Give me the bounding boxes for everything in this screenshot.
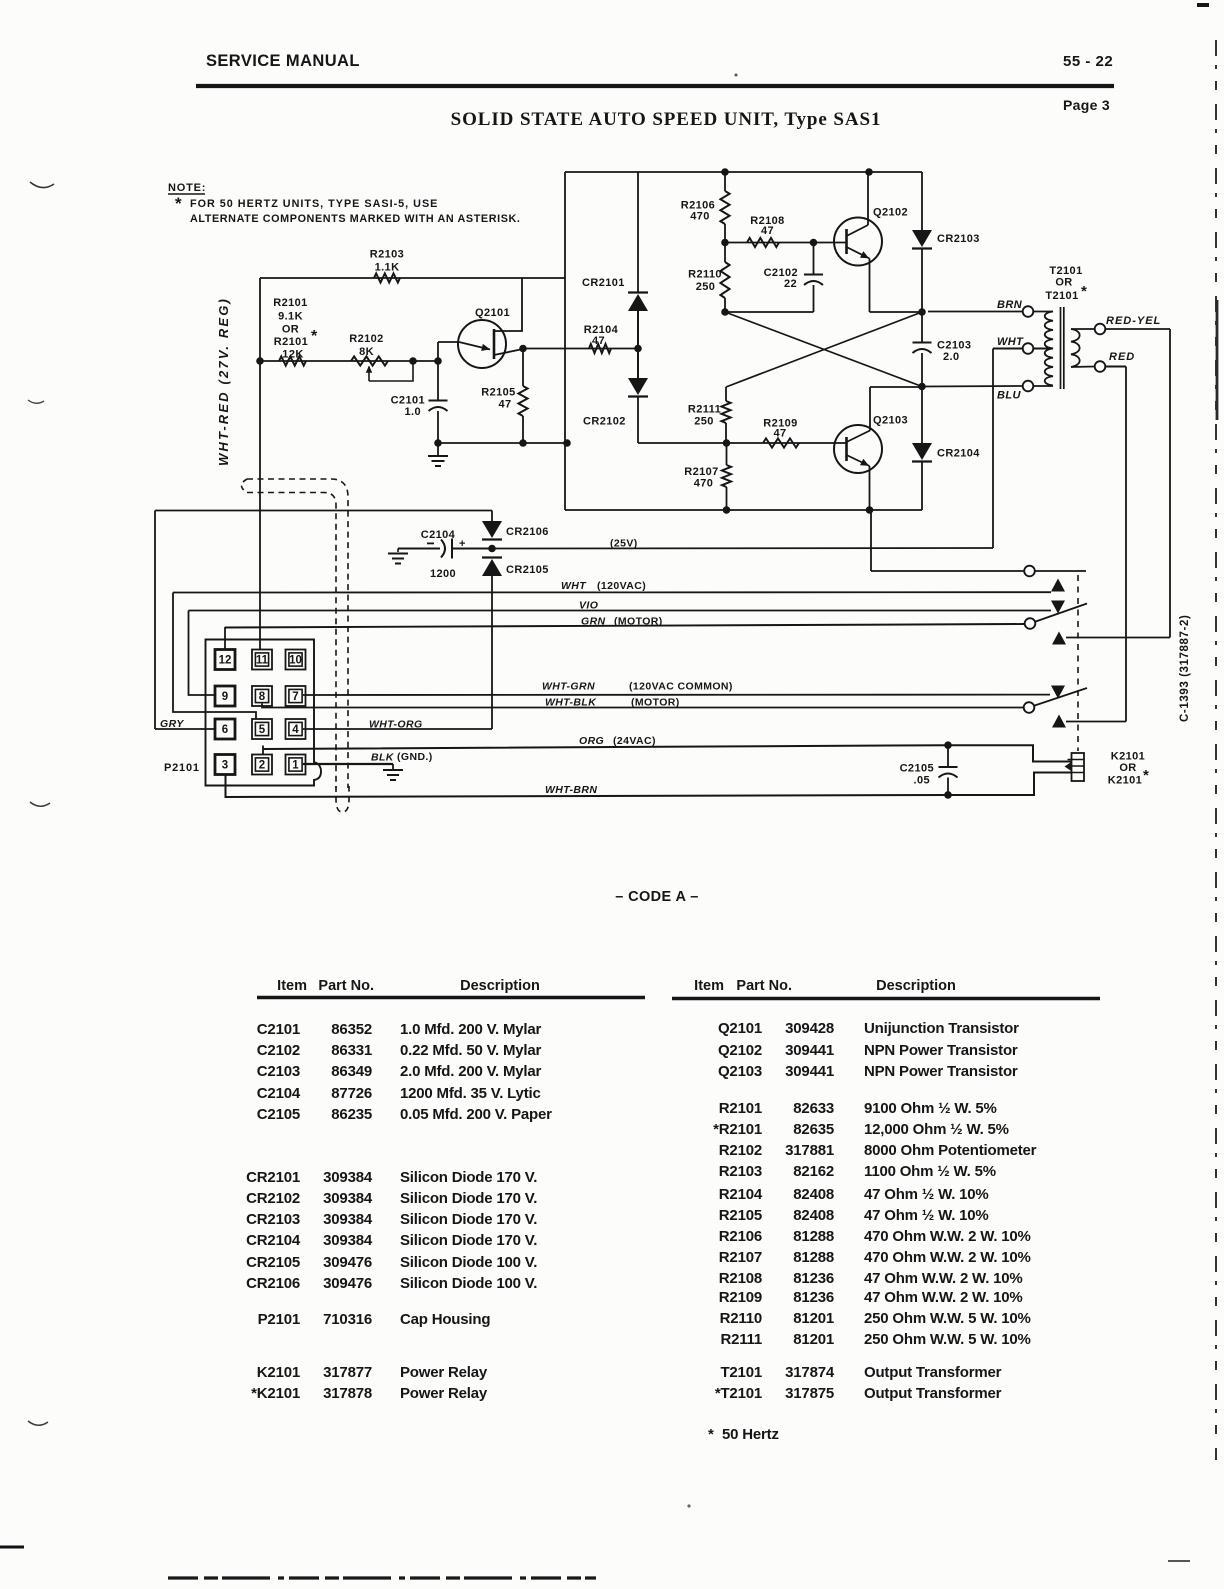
svg-text:(25V): (25V) (610, 538, 638, 550)
svg-text:317877: 317877 (323, 1364, 372, 1381)
svg-text:1.1K: 1.1K (375, 262, 400, 274)
svg-text:Q2101: Q2101 (475, 307, 510, 319)
svg-text:K2101: K2101 (1111, 751, 1145, 763)
svg-text:(120VAC COMMON): (120VAC COMMON) (629, 681, 733, 693)
svg-text:WHT-ORG: WHT-ORG (369, 719, 423, 731)
svg-text:Q2102: Q2102 (718, 1042, 762, 1059)
svg-text:9.1K: 9.1K (278, 311, 303, 323)
svg-text:Part No.: Part No. (318, 978, 374, 994)
svg-text:R2101: R2101 (719, 1100, 762, 1117)
svg-text:R2106: R2106 (719, 1228, 762, 1245)
svg-text:Q2103: Q2103 (718, 1063, 762, 1080)
svg-text:NOTE:: NOTE: (168, 182, 206, 194)
svg-text:12K: 12K (282, 349, 303, 361)
svg-text:R2111: R2111 (720, 1331, 762, 1348)
svg-text:47: 47 (761, 225, 774, 237)
svg-text:309384: 309384 (323, 1232, 373, 1249)
svg-text:470: 470 (694, 478, 714, 490)
svg-text:9100 Ohm ½ W. 5%: 9100 Ohm ½ W. 5% (864, 1100, 997, 1117)
svg-text:309384: 309384 (323, 1190, 373, 1207)
svg-text:82408: 82408 (793, 1207, 834, 1224)
svg-text:WHT-GRN: WHT-GRN (542, 681, 595, 693)
svg-text:R2103: R2103 (370, 249, 404, 261)
svg-text:82635: 82635 (793, 1121, 834, 1138)
svg-text:47: 47 (773, 428, 786, 440)
svg-text:Part No.: Part No. (736, 978, 792, 994)
svg-text:RED-YEL: RED-YEL (1106, 315, 1161, 327)
svg-text:4: 4 (292, 724, 299, 736)
svg-text:8000 Ohm Potentiometer: 8000 Ohm Potentiometer (864, 1142, 1037, 1159)
svg-text:8: 8 (259, 691, 266, 703)
svg-text:OR: OR (282, 324, 299, 336)
svg-text:309476: 309476 (323, 1275, 372, 1292)
svg-text:309384: 309384 (323, 1169, 373, 1186)
svg-text:1.0: 1.0 (405, 406, 422, 418)
svg-text:10: 10 (289, 655, 302, 667)
svg-text:309441: 309441 (785, 1042, 834, 1059)
svg-text:55 - 22: 55 - 22 (1063, 53, 1113, 70)
svg-text:R2107: R2107 (684, 466, 718, 478)
svg-text:Silicon Diode 170 V.: Silicon Diode 170 V. (400, 1232, 537, 1249)
svg-text:81236: 81236 (793, 1270, 834, 1287)
svg-text:Description: Description (460, 978, 540, 994)
svg-text:2.0: 2.0 (943, 351, 960, 363)
svg-text:317875: 317875 (785, 1385, 834, 1402)
svg-text:1.0 Mfd. 200 V. Mylar: 1.0 Mfd. 200 V. Mylar (400, 1021, 542, 1038)
svg-text:Power Relay: Power Relay (400, 1385, 488, 1402)
svg-text:317881: 317881 (785, 1142, 834, 1159)
svg-text:1100 Ohm ½ W. 5%: 1100 Ohm ½ W. 5% (864, 1163, 996, 1180)
svg-text:81236: 81236 (793, 1289, 834, 1306)
svg-text:R2108: R2108 (719, 1270, 762, 1287)
svg-text:*: * (175, 194, 182, 213)
svg-text:FOR 50 HERTZ UNITS, TYPE SASI-: FOR 50 HERTZ UNITS, TYPE SASI-5, USE (190, 198, 438, 210)
svg-text:C2105: C2105 (900, 763, 934, 775)
svg-text:81201: 81201 (793, 1310, 834, 1327)
svg-text:Q2101: Q2101 (718, 1020, 762, 1037)
svg-text:*: * (311, 328, 318, 345)
svg-text:WHT: WHT (997, 336, 1024, 348)
svg-text:9: 9 (222, 691, 228, 703)
svg-text:Silicon Diode 100 V.: Silicon Diode 100 V. (400, 1275, 537, 1292)
svg-text:R2102: R2102 (719, 1142, 762, 1159)
svg-text:250 Ohm W.W. 5 W. 10%: 250 Ohm W.W. 5 W. 10% (864, 1310, 1031, 1327)
svg-text:+: + (459, 538, 466, 550)
svg-text:GRN: GRN (581, 616, 606, 628)
svg-text:CR2103: CR2103 (246, 1211, 300, 1228)
svg-text:*K2101: *K2101 (251, 1385, 300, 1402)
svg-text:CR2106: CR2106 (246, 1275, 300, 1292)
svg-text:87726: 87726 (331, 1085, 372, 1102)
svg-text:Silicon Diode 170 V.: Silicon Diode 170 V. (400, 1211, 537, 1228)
svg-text:BLK: BLK (371, 752, 395, 764)
svg-text:WHT-BLK: WHT-BLK (545, 697, 597, 709)
svg-text:86352: 86352 (331, 1021, 372, 1038)
svg-text:R2110: R2110 (688, 269, 722, 281)
svg-text:Silicon Diode 100 V.: Silicon Diode 100 V. (400, 1254, 537, 1271)
svg-text:CR2102: CR2102 (246, 1190, 300, 1207)
svg-text:WHT-BRN: WHT-BRN (545, 784, 597, 796)
svg-text:Item: Item (277, 978, 307, 994)
svg-text:R2105: R2105 (481, 387, 515, 399)
svg-text:C2104: C2104 (257, 1085, 301, 1102)
svg-text:CR2102: CR2102 (583, 416, 626, 428)
svg-text:11: 11 (256, 655, 269, 667)
svg-text:710316: 710316 (323, 1311, 372, 1328)
svg-text:86235: 86235 (331, 1106, 372, 1123)
svg-text:8K: 8K (359, 346, 374, 358)
svg-text:Output Transformer: Output Transformer (864, 1364, 1002, 1381)
svg-text:ORG: ORG (579, 735, 604, 747)
svg-text:P2101: P2101 (164, 762, 200, 774)
svg-text:R2104: R2104 (719, 1186, 763, 1203)
svg-text:317874: 317874 (785, 1364, 835, 1381)
svg-text:– CODE A –: – CODE A – (615, 889, 699, 905)
svg-text:309441: 309441 (785, 1063, 834, 1080)
svg-text:12,000 Ohm ½ W. 5%: 12,000 Ohm ½ W. 5% (864, 1121, 1009, 1138)
svg-text:CR2105: CR2105 (506, 564, 549, 576)
svg-text:Description: Description (876, 978, 956, 994)
svg-text:C2103: C2103 (257, 1063, 300, 1080)
svg-text:309384: 309384 (323, 1211, 373, 1228)
svg-text:86331: 86331 (331, 1042, 372, 1059)
svg-text:C2103: C2103 (937, 340, 971, 352)
svg-text:47: 47 (592, 335, 605, 347)
svg-text:(GND.): (GND.) (397, 751, 433, 763)
svg-text:470 Ohm W.W. 2 W. 10%: 470 Ohm W.W. 2 W. 10% (864, 1249, 1031, 1266)
svg-text:C2101: C2101 (391, 395, 425, 407)
svg-text:R2105: R2105 (719, 1207, 762, 1224)
svg-text:1200: 1200 (430, 568, 456, 580)
svg-text:Unijunction Transistor: Unijunction Transistor (864, 1020, 1019, 1037)
svg-text:470 Ohm W.W. 2 W. 10%: 470 Ohm W.W. 2 W. 10% (864, 1228, 1031, 1245)
svg-text:R2102: R2102 (349, 333, 383, 345)
svg-text:SOLID STATE AUTO SPEED UNIT, T: SOLID STATE AUTO SPEED UNIT, Type SAS1 (451, 109, 882, 130)
svg-text:86349: 86349 (331, 1063, 372, 1080)
svg-text:250: 250 (696, 281, 716, 293)
svg-text:RED: RED (1109, 351, 1135, 363)
svg-text:T2101: T2101 (1045, 290, 1078, 302)
svg-text:Silicon Diode 170 V.: Silicon Diode 170 V. (400, 1169, 537, 1186)
svg-text:0.05 Mfd. 200 V. Paper: 0.05 Mfd. 200 V. Paper (400, 1106, 552, 1123)
svg-text:*: * (1081, 283, 1087, 300)
svg-text:CR2103: CR2103 (937, 233, 980, 245)
svg-text:BLU: BLU (997, 390, 1021, 402)
svg-text:Page 3: Page 3 (1063, 97, 1110, 113)
svg-text:*R2101: *R2101 (713, 1121, 762, 1138)
svg-text:0.22 Mfd. 50 V. Mylar: 0.22 Mfd. 50 V. Mylar (400, 1042, 542, 1059)
svg-text:R2101: R2101 (273, 297, 307, 309)
svg-text:R2110: R2110 (720, 1310, 762, 1327)
svg-text:VIO: VIO (579, 600, 598, 612)
svg-text:82408: 82408 (793, 1186, 834, 1203)
svg-text:K2101: K2101 (1108, 775, 1142, 787)
svg-text:47 Ohm W.W. 2 W. 10%: 47 Ohm W.W. 2 W. 10% (864, 1289, 1023, 1306)
svg-text:C2105: C2105 (257, 1106, 300, 1123)
svg-text:C2104: C2104 (421, 529, 456, 541)
svg-text:12: 12 (219, 655, 232, 667)
svg-text:P2101: P2101 (258, 1311, 300, 1328)
svg-text:K2101: K2101 (257, 1364, 300, 1381)
svg-text:47 Ohm ½ W. 10%: 47 Ohm ½ W. 10% (864, 1186, 989, 1203)
svg-text:(MOTOR): (MOTOR) (631, 697, 680, 709)
svg-text:NPN Power Transistor: NPN Power Transistor (864, 1042, 1018, 1059)
svg-text:82633: 82633 (793, 1100, 834, 1117)
svg-text:C2102: C2102 (257, 1042, 300, 1059)
svg-text:CR2101: CR2101 (582, 277, 625, 289)
svg-text:250 Ohm W.W. 5 W. 10%: 250 Ohm W.W. 5 W. 10% (864, 1331, 1031, 1348)
svg-text:NPN Power Transistor: NPN Power Transistor (864, 1063, 1018, 1080)
svg-text:Item: Item (694, 978, 724, 994)
svg-text:Cap Housing: Cap Housing (400, 1311, 490, 1328)
svg-text:2.0 Mfd. 200 V. Mylar: 2.0 Mfd. 200 V. Mylar (400, 1063, 542, 1080)
svg-text:81288: 81288 (793, 1249, 834, 1266)
svg-text:R2111: R2111 (688, 404, 721, 416)
svg-text:R2101: R2101 (274, 336, 308, 348)
svg-text:R2109: R2109 (719, 1289, 762, 1306)
svg-text:OR: OR (1055, 277, 1072, 289)
svg-text:81288: 81288 (793, 1228, 834, 1245)
svg-text:47 Ohm ½ W. 10%: 47 Ohm ½ W. 10% (864, 1207, 989, 1224)
svg-text:T2101: T2101 (720, 1364, 762, 1381)
svg-text:CR2106: CR2106 (506, 526, 549, 538)
svg-text:309476: 309476 (323, 1254, 372, 1271)
svg-text:*: * (1143, 767, 1149, 784)
svg-text:Q2103: Q2103 (873, 415, 908, 427)
svg-text:Power Relay: Power Relay (400, 1364, 488, 1381)
svg-text:C2101: C2101 (257, 1021, 300, 1038)
svg-text:470: 470 (690, 211, 710, 223)
svg-text:5: 5 (259, 724, 266, 736)
svg-text:ALTERNATE COMPONENTS MARKED WI: ALTERNATE COMPONENTS MARKED WITH AN ASTE… (190, 213, 521, 225)
svg-text:3: 3 (222, 760, 228, 772)
svg-text:317878: 317878 (323, 1385, 372, 1402)
svg-text:309428: 309428 (785, 1020, 834, 1037)
svg-text:(120VAC): (120VAC) (597, 580, 646, 592)
svg-text:OR: OR (1119, 762, 1136, 774)
svg-text:2: 2 (259, 760, 265, 772)
svg-text:Silicon Diode 170 V.: Silicon Diode 170 V. (400, 1190, 537, 1207)
svg-text:250: 250 (694, 416, 714, 428)
svg-text:C-1393 (317887-2): C-1393 (317887-2) (1179, 615, 1191, 722)
svg-text:CR2104: CR2104 (937, 448, 980, 460)
svg-text:Output Transformer: Output Transformer (864, 1385, 1002, 1402)
svg-text:47: 47 (498, 399, 511, 411)
svg-text:7: 7 (292, 691, 298, 703)
svg-text:T2101: T2101 (1049, 265, 1082, 277)
svg-text:(MOTOR): (MOTOR) (614, 616, 663, 628)
svg-text:6: 6 (222, 724, 228, 736)
svg-text:47 Ohm W.W. 2 W. 10%: 47 Ohm W.W. 2 W. 10% (864, 1270, 1023, 1287)
svg-text:R2103: R2103 (719, 1163, 762, 1180)
svg-text:WHT-RED (27V. REG): WHT-RED (27V. REG) (216, 297, 231, 466)
svg-text:CR2104: CR2104 (246, 1232, 301, 1249)
svg-text:R2107: R2107 (719, 1249, 762, 1266)
svg-text:GRY: GRY (160, 718, 184, 730)
svg-text:BRN: BRN (997, 299, 1023, 311)
svg-text:*: * (708, 1426, 714, 1443)
svg-text:Q2102: Q2102 (873, 207, 908, 219)
svg-text:81201: 81201 (793, 1331, 834, 1348)
svg-text:*T2101: *T2101 (715, 1385, 762, 1402)
svg-text:1: 1 (292, 760, 299, 772)
svg-text:50 Hertz: 50 Hertz (722, 1426, 779, 1443)
svg-text:CR2101: CR2101 (246, 1169, 300, 1186)
svg-text:(24VAC): (24VAC) (613, 735, 656, 747)
svg-text:82162: 82162 (793, 1163, 834, 1180)
svg-text:CR2105: CR2105 (246, 1254, 300, 1271)
svg-text:1200 Mfd. 35 V. Lytic: 1200 Mfd. 35 V. Lytic (400, 1085, 541, 1102)
svg-text:WHT: WHT (561, 580, 587, 592)
svg-text:.05: .05 (914, 775, 931, 787)
svg-text:SERVICE MANUAL: SERVICE MANUAL (206, 52, 360, 70)
svg-text:22: 22 (784, 278, 797, 290)
